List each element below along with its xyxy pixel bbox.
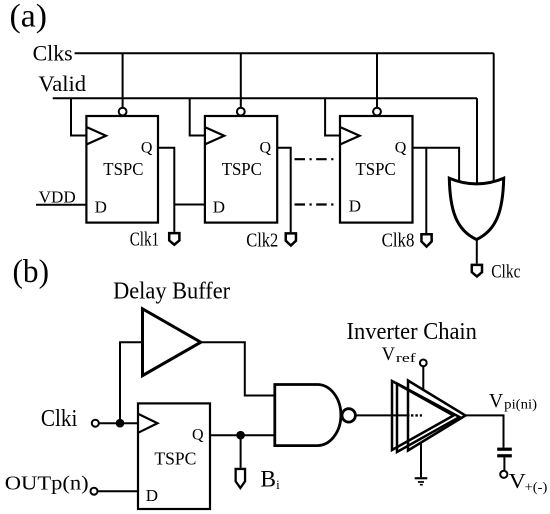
flip-flop U3 clock triangle bbox=[340, 127, 360, 145]
junction Clki node bbox=[116, 419, 125, 428]
flip-flop U2 box bbox=[205, 116, 277, 223]
flip-flop U3 box bbox=[340, 116, 413, 223]
wire Clks to OR gate bbox=[493, 53, 495, 184]
wire Bi drop bbox=[240, 435, 242, 468]
junction Bi node bbox=[236, 431, 245, 440]
svg-text:V: V bbox=[509, 469, 526, 493]
svg-text:Valid: Valid bbox=[38, 71, 86, 96]
svg-text:D: D bbox=[95, 198, 107, 217]
svg-text:V: V bbox=[489, 390, 504, 412]
wire Valid bus bbox=[53, 97, 477, 99]
wire Clki to buffer bbox=[120, 342, 143, 423]
svg-text:(a): (a) bbox=[10, 0, 48, 35]
capacitor C1 plate bottom bbox=[497, 454, 512, 457]
ground symbol bbox=[415, 477, 428, 485]
wire Valid to U3 clock bbox=[325, 98, 340, 135]
svg-text:Clks: Clks bbox=[33, 41, 73, 66]
wire Clks to U3 bubble bbox=[376, 53, 378, 107]
pad Clk2 bbox=[286, 233, 296, 245]
inverter chain ellipsis dots bbox=[411, 414, 422, 416]
svg-text:Q: Q bbox=[395, 139, 407, 156]
svg-text:Delay Buffer: Delay Buffer bbox=[113, 279, 230, 305]
svg-text:Clkc: Clkc bbox=[491, 262, 520, 283]
terminal Clki bbox=[92, 420, 99, 427]
wire U1 Q output bbox=[158, 148, 174, 232]
flip-flop U6 clock triangle bbox=[138, 414, 158, 433]
svg-text:D: D bbox=[213, 198, 225, 217]
svg-text:Clk2: Clk2 bbox=[246, 229, 278, 251]
inverter triangle back bbox=[392, 381, 454, 450]
wire inverter chain output bbox=[465, 415, 504, 447]
NAND gate U7 bbox=[275, 385, 341, 446]
flip-flop U2 clock triangle bbox=[205, 127, 225, 145]
wire Clks to U2 bubble bbox=[240, 53, 242, 107]
wire U3 Q to OR gate bbox=[413, 148, 460, 182]
svg-text:D: D bbox=[146, 486, 158, 505]
svg-text:D: D bbox=[349, 197, 361, 216]
pad Clk8 bbox=[421, 234, 431, 246]
wire Clki to U6 bbox=[99, 422, 138, 424]
buffer U5 triangle bbox=[143, 309, 201, 376]
wire capacitor to terminal bbox=[503, 457, 505, 470]
terminal Vref bbox=[420, 360, 427, 367]
pad Bi bbox=[236, 469, 245, 488]
NAND bubble bbox=[342, 409, 355, 422]
wire VDD to U1 D bbox=[36, 204, 86, 206]
wire Clks to U1 bubble bbox=[122, 53, 124, 107]
svg-text:pi(ni): pi(ni) bbox=[504, 397, 537, 412]
svg-text:VDD: VDD bbox=[39, 187, 76, 206]
svg-text:TSPC: TSPC bbox=[356, 159, 396, 179]
wire OUTp(n) to U6 D bbox=[98, 490, 139, 492]
wire U3 Q to Clk8 pad bbox=[425, 148, 427, 233]
capacitor C1 plate top bbox=[497, 448, 512, 451]
inverter triangle front bbox=[408, 381, 466, 451]
wire NAND output to inverter chain bbox=[355, 414, 409, 416]
flip-flop U1 box bbox=[86, 116, 158, 223]
wire dash-dot upper bbox=[295, 158, 338, 160]
wire Clks bus bbox=[75, 52, 494, 54]
wire Valid to OR gate bbox=[476, 98, 478, 185]
pad Clkc bbox=[472, 265, 482, 277]
wire Valid to U1 clock bbox=[71, 98, 86, 135]
svg-text:TSPC: TSPC bbox=[103, 159, 143, 179]
terminal OUTp(n) bbox=[91, 488, 98, 495]
wire dash-dot lower bbox=[295, 203, 338, 205]
wire U1 Q to U2 D bbox=[174, 204, 204, 206]
svg-text:TSPC: TSPC bbox=[222, 159, 262, 179]
svg-text:V: V bbox=[382, 345, 396, 365]
svg-text:Clki: Clki bbox=[41, 406, 78, 432]
svg-text:Q: Q bbox=[260, 139, 272, 156]
flip-flop U2 bubble bbox=[237, 108, 245, 116]
svg-text:Q: Q bbox=[192, 427, 204, 444]
inverter triangle middle bbox=[397, 384, 460, 453]
flip-flop U3 bubble bbox=[373, 108, 381, 116]
svg-text:ref: ref bbox=[396, 350, 417, 365]
svg-text:OUTp(n): OUTp(n) bbox=[5, 473, 89, 495]
svg-text:Clk8: Clk8 bbox=[382, 229, 415, 251]
wire OR output bbox=[476, 239, 478, 264]
svg-text:+(-): +(-) bbox=[525, 480, 548, 495]
wire U6 Q to NAND bbox=[210, 434, 275, 436]
svg-text:Q: Q bbox=[141, 139, 153, 156]
svg-text:TSPC: TSPC bbox=[154, 449, 196, 469]
pad Clk1 bbox=[169, 233, 179, 245]
svg-text:(b): (b) bbox=[13, 254, 50, 290]
flip-flop U1 bubble bbox=[119, 108, 127, 116]
wire U2 Q output bbox=[277, 148, 291, 232]
svg-text:Clk1: Clk1 bbox=[130, 229, 159, 251]
terminal V+(-) bbox=[500, 471, 507, 478]
wire Vref to inverter chain bbox=[422, 366, 424, 390]
svg-text:Inverter Chain: Inverter Chain bbox=[347, 319, 477, 345]
flip-flop U1 clock triangle bbox=[86, 127, 106, 145]
wire buffer to NAND bbox=[201, 342, 275, 395]
OR gate U4 bbox=[449, 178, 503, 239]
wire inverter chain to ground bbox=[420, 443, 422, 477]
wire Valid to U2 clock bbox=[190, 98, 205, 135]
flip-flop U6 box bbox=[138, 403, 210, 509]
